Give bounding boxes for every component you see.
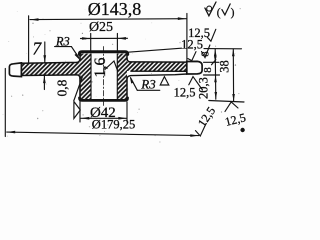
svg-text:Ø25: Ø25	[89, 20, 113, 35]
check #1	[207, 29, 216, 41]
scan speckle noise	[3, 4, 241, 142]
hub left wall hatch	[80, 54, 91, 100]
centerline of bore	[102, 47, 104, 106]
svg-text:12,5: 12,5	[181, 38, 203, 52]
D179 arrow right	[190, 134, 199, 137]
arrow 38 up	[232, 49, 235, 56]
svg-text:12,5: 12,5	[195, 104, 218, 129]
hub left outer wall	[79, 54, 81, 100]
right rim cap	[187, 61, 202, 74]
D42 ext left	[79, 76, 81, 122]
right web hatch	[127, 62, 187, 71]
dim line 38 x229.5	[232, 49, 234, 101]
arrow 7 down	[43, 55, 46, 63]
D179 arrow left	[7, 131, 16, 134]
12,5 check triangle up	[160, 77, 169, 85]
arrow 38 down	[232, 94, 235, 101]
right web outline top	[127, 58, 187, 62]
circle of symbol	[207, 6, 212, 11]
arrow D143.8 left	[30, 18, 39, 21]
root symbol with circle	[205, 2, 216, 16]
R3 underline	[55, 46, 72, 48]
check #B	[225, 102, 238, 112]
left web hatch	[21, 62, 80, 75]
svg-text:7: 7	[32, 38, 42, 58]
svg-text:R3: R3	[140, 76, 156, 91]
tick on rim top ext	[212, 60, 216, 65]
svg-text:20,3: 20,3	[197, 77, 211, 99]
hub bore left wall	[90, 54, 92, 100]
arrow up tip y75.2 (20,3)	[214, 75, 217, 82]
arrow D143.8 right	[178, 17, 187, 20]
svg-text:0,8: 0,8	[54, 79, 69, 96]
hub top face	[79, 52, 127, 55]
hub right outer wall	[126, 54, 128, 100]
arrow down tip y62	[214, 56, 217, 62]
check at D179 arrow	[196, 124, 207, 136]
dim line D143.8	[30, 18, 186, 21]
svg-text:(: (	[217, 7, 221, 19]
R3 right underline	[137, 89, 160, 91]
hub top ext y54	[128, 48, 182, 52]
arrow up tip y49	[214, 49, 217, 56]
scan dot	[240, 128, 244, 132]
0,8 check triangle	[74, 102, 80, 119]
svg-text:8: 8	[202, 67, 214, 73]
dim 7 line lower	[43, 76, 45, 90]
arrow down tip y98.6 (20,3)	[215, 92, 218, 99]
svg-text:Ø143,8: Ø143,8	[88, 0, 142, 19]
R3 arrowhead	[75, 53, 81, 60]
ext line left D143.8	[28, 16, 30, 63]
D42 arrow left	[81, 117, 90, 120]
left web outline bottom	[21, 75, 80, 78]
right web lower sloped line	[127, 74, 187, 79]
dim 7 line upper	[44, 42, 46, 63]
svg-text:12,5: 12,5	[223, 110, 247, 129]
left rim inner edge	[20, 63, 22, 77]
vertical dim line x214	[214, 49, 217, 99]
small check at cap top	[188, 52, 196, 61]
svg-text:12,5: 12,5	[174, 85, 196, 99]
leader line y49	[204, 48, 242, 50]
R3 right leader	[131, 78, 138, 91]
right web outline bottom	[131, 70, 187, 72]
hub bore right wall	[116, 54, 118, 100]
D179 dim line	[7, 132, 199, 136]
dim D25 line	[81, 37, 128, 39]
hub bottom ext y98.7	[209, 101, 244, 103]
check in parens	[222, 4, 230, 15]
left web outline top	[21, 59, 80, 64]
hub right wall hatch	[117, 54, 127, 100]
left rim cap	[9, 63, 21, 77]
arrow D25 left	[82, 37, 91, 40]
check #2	[202, 45, 210, 58]
rim top ext y62.3	[204, 61, 220, 63]
0,8 check tail	[74, 77, 82, 101]
D179 ext left	[4, 69, 6, 137]
ext line D25 left	[90, 34, 92, 52]
D42 arrow right	[118, 117, 127, 120]
arrow D25 right	[117, 37, 126, 40]
1,6 check	[105, 61, 118, 71]
ext line right D143.8	[186, 14, 188, 62]
D42 dim line	[81, 117, 127, 119]
svg-text:38: 38	[218, 60, 232, 73]
web bottom ext y75	[204, 74, 220, 76]
ext line D25 right	[116, 34, 118, 52]
hub bottom face	[80, 98, 128, 101]
check above 12,5 right	[189, 77, 203, 90]
arrow 7 up	[43, 76, 46, 84]
D42 ext right	[126, 102, 128, 122]
right rim inner edge	[186, 62, 188, 75]
R3 leader	[71, 47, 78, 58]
svg-text:): )	[231, 7, 235, 19]
svg-text:Ø179,25: Ø179,25	[92, 118, 135, 132]
R3 right arrowhead	[130, 76, 134, 84]
